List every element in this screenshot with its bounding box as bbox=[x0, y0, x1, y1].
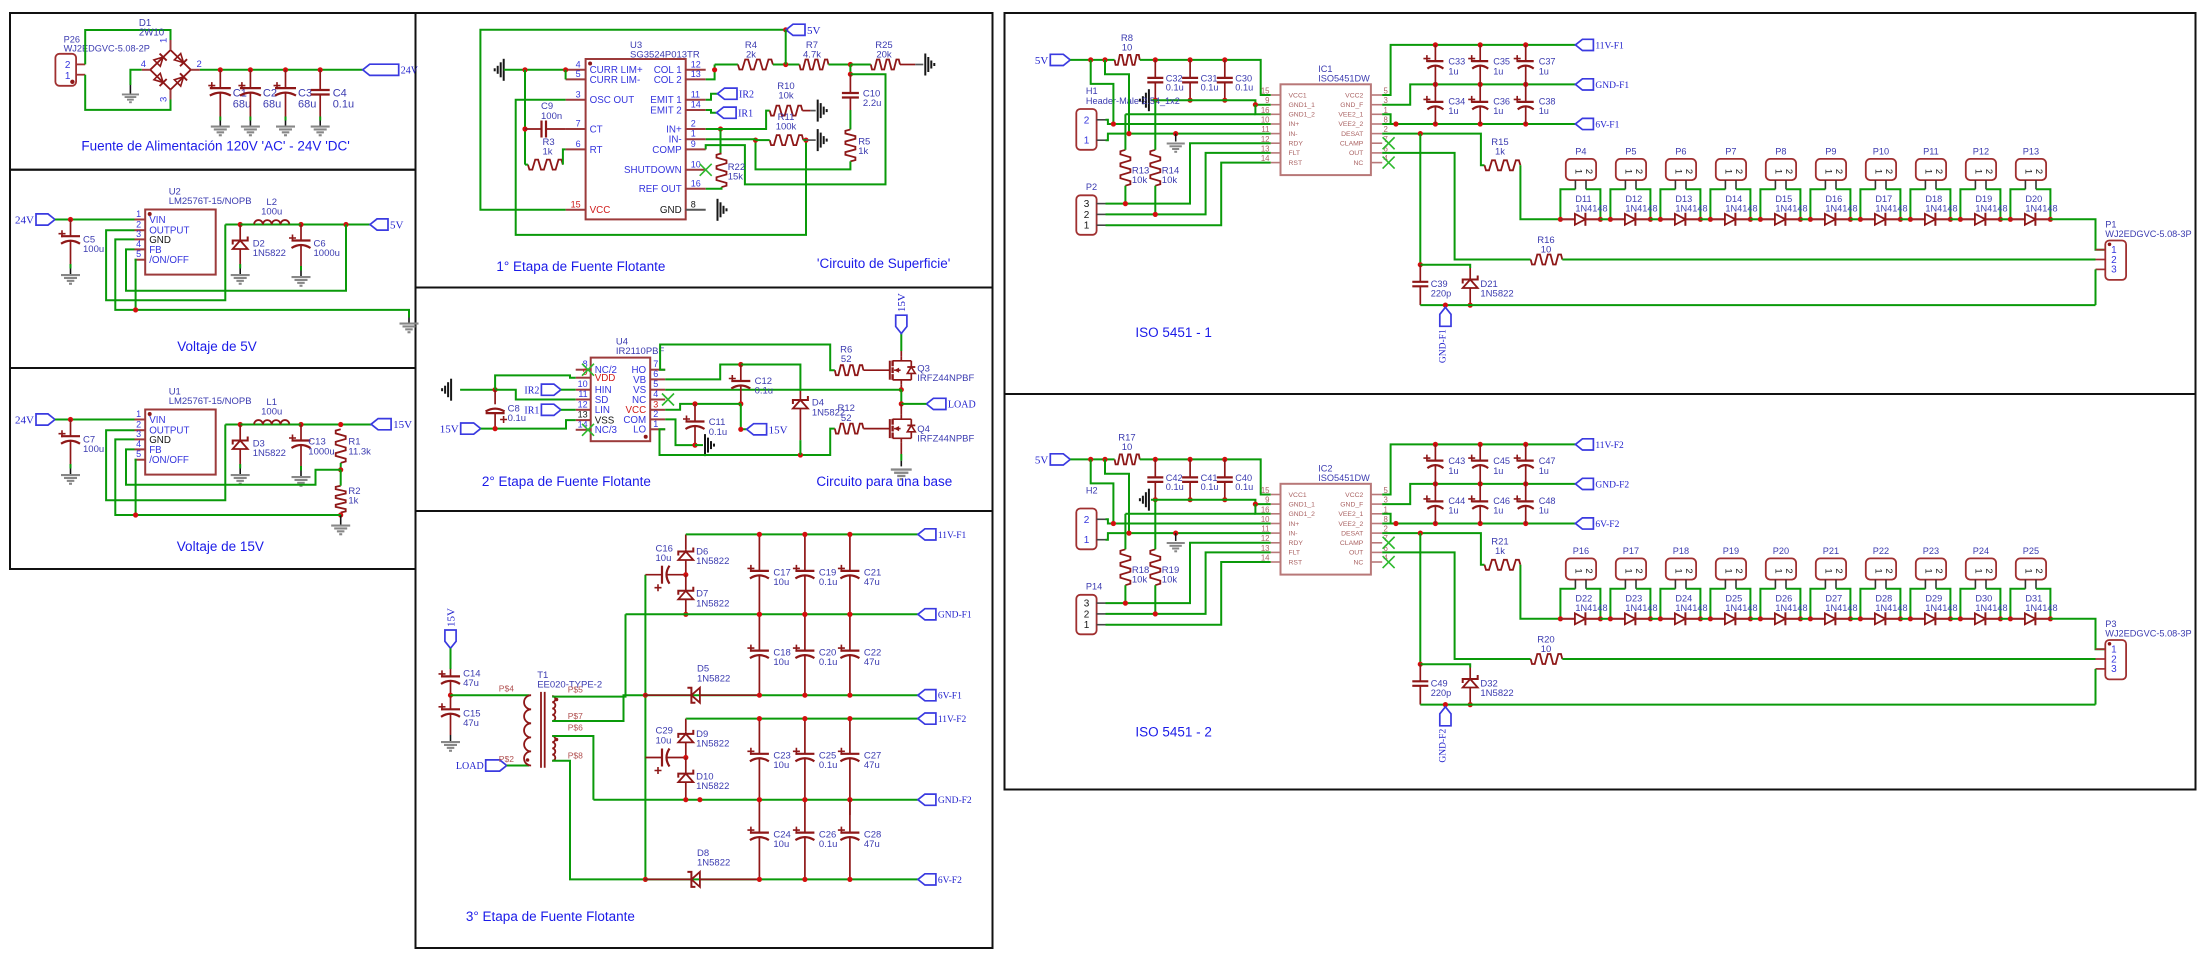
C37 ref bbox=[1539, 57, 1556, 67]
wire gnd1 rail ISO2 bbox=[1151, 500, 1271, 504]
svg-text:1N4148: 1N4148 bbox=[1975, 203, 2007, 213]
resistor R2 1k bbox=[336, 486, 346, 513]
svg-text:VEE2_2: VEE2_2 bbox=[1338, 521, 1363, 528]
wire gnd12 long ISO1 bbox=[1125, 113, 1255, 115]
wire VCC2 rail ISO1 bbox=[1382, 45, 1575, 95]
svg-text:1u: 1u bbox=[1539, 466, 1549, 476]
wire chain D12 to next bbox=[1650, 218, 1660, 220]
D32 label ref bbox=[1480, 678, 1497, 689]
wire P7.1 to chain bbox=[1710, 189, 1725, 219]
junction rail b ISO2 bbox=[1102, 457, 1107, 462]
wire P11.2 to chain bbox=[1936, 189, 1950, 219]
wire VEE2_2 stub ISO1 bbox=[1382, 123, 1396, 125]
IC1 pin name CLAMP bbox=[1340, 141, 1364, 148]
junction C42 bottom bbox=[1153, 497, 1158, 502]
svg-text:RT: RT bbox=[590, 145, 603, 156]
IC1 pin name GND_F bbox=[1340, 102, 1363, 109]
junction C5 top bbox=[68, 217, 73, 222]
resistor R13 10k bbox=[1120, 150, 1130, 186]
power flag 5V output text bbox=[390, 220, 404, 232]
IC1 pin 6 number bbox=[1384, 144, 1388, 153]
wire C2 gnd black bbox=[249, 121, 251, 126]
wire C4 gnd black bbox=[319, 121, 321, 126]
svg-text:2: 2 bbox=[653, 409, 658, 419]
svg-text:11: 11 bbox=[578, 389, 587, 399]
junction C24 bottom bbox=[757, 877, 762, 882]
capacitor C4 0.1u bbox=[311, 70, 330, 117]
R19 label ref bbox=[1162, 565, 1179, 576]
resistor R5 1k label value bbox=[858, 146, 868, 157]
svg-text:CLAMP: CLAMP bbox=[1340, 540, 1364, 547]
U3 pin 9 stub bbox=[686, 148, 706, 150]
C3 ref bbox=[298, 88, 312, 100]
wire chain D27 to next bbox=[1850, 618, 1860, 620]
junction C13 top bbox=[298, 422, 303, 427]
svg-text:P14: P14 bbox=[1086, 582, 1102, 592]
svg-text:LM2576T-15/NOPB: LM2576T-15/NOPB bbox=[169, 396, 252, 407]
IC1 pin 5 number bbox=[1384, 87, 1389, 96]
svg-text:2: 2 bbox=[691, 119, 696, 129]
U3 pin 6 stub bbox=[566, 148, 586, 150]
resistor R10 10k label ref bbox=[777, 81, 794, 92]
svg-text:REF OUT: REF OUT bbox=[639, 184, 682, 195]
svg-text:1N5822: 1N5822 bbox=[697, 858, 730, 869]
P6 pin2 digit bbox=[1683, 169, 1694, 174]
D21 label value bbox=[1480, 289, 1513, 300]
net flag GND-F2 vertical bbox=[1440, 707, 1451, 726]
svg-text:100n: 100n bbox=[541, 111, 562, 122]
U4 pin name NC/3 bbox=[595, 425, 618, 436]
wire chain to P3 bbox=[2050, 619, 2105, 649]
wire pin4 to pin5 bbox=[565, 70, 567, 80]
inductor L1 100u label ref bbox=[266, 397, 277, 408]
P5 pin2 stub bbox=[1635, 180, 1637, 189]
P20 pin2 digit bbox=[1783, 568, 1794, 573]
capacitor C25 0.1u bbox=[793, 719, 815, 800]
wire gnd stem D1.4 bbox=[129, 85, 131, 94]
svg-text:DESAT: DESAT bbox=[1341, 530, 1363, 537]
P1 pin 2 stub bbox=[2096, 259, 2106, 261]
diode D20 1N4148 bbox=[2010, 213, 2050, 226]
svg-text:GND_F: GND_F bbox=[1340, 501, 1363, 508]
svg-text:GND_F: GND_F bbox=[1340, 102, 1363, 109]
svg-text:GND-F1: GND-F1 bbox=[1595, 81, 1629, 91]
P10 pin1 stub bbox=[1874, 180, 1876, 189]
svg-text:P21: P21 bbox=[1823, 546, 1839, 556]
svg-text:CURR LIM-: CURR LIM- bbox=[590, 75, 641, 86]
junction D18 anode bbox=[1908, 217, 1913, 222]
wire VDD net bbox=[495, 375, 576, 389]
D1 pin4 stub bbox=[142, 69, 151, 71]
wire chain D29 to next bbox=[1950, 618, 1960, 620]
C33 ref bbox=[1448, 57, 1465, 67]
IC1 pin name IN+ bbox=[1289, 121, 1300, 128]
junction C1 top bbox=[218, 67, 223, 72]
U4 pin name VCC bbox=[626, 405, 647, 416]
P20 pin1 digit bbox=[1772, 568, 1783, 573]
D1 value bbox=[139, 27, 165, 38]
P10 pin1 digit bbox=[1872, 169, 1883, 174]
junction rail a ISO1 bbox=[1088, 57, 1093, 62]
svg-text:7: 7 bbox=[653, 359, 658, 369]
svg-text:FLT: FLT bbox=[1289, 150, 1301, 157]
P4 pin1 stub bbox=[1574, 180, 1576, 189]
C27 label value bbox=[864, 760, 880, 771]
net flag IR1 text bbox=[738, 108, 753, 119]
IC2 pin 3 number bbox=[1384, 496, 1388, 505]
transformer T1 core bbox=[541, 692, 545, 768]
wire R19 top bbox=[1154, 500, 1156, 550]
svg-text:P19: P19 bbox=[1723, 546, 1739, 556]
svg-text:2: 2 bbox=[1583, 169, 1594, 174]
svg-text:0.1u: 0.1u bbox=[508, 413, 526, 424]
resistor R25 20k bbox=[871, 60, 900, 70]
connector H1 Header bbox=[1076, 109, 1096, 150]
C48 value bbox=[1539, 506, 1549, 516]
P16 pin2 digit bbox=[1583, 568, 1594, 573]
net flag LOAD text bbox=[948, 400, 976, 411]
junction C23 top bbox=[757, 716, 762, 721]
svg-text:P13: P13 bbox=[2023, 146, 2039, 156]
svg-text:P17: P17 bbox=[1623, 546, 1639, 556]
U3 pin 7 stub bbox=[566, 128, 586, 130]
T1 pin P$7 label bbox=[568, 711, 583, 721]
svg-text:2k: 2k bbox=[746, 50, 756, 61]
C39 value bbox=[1431, 289, 1451, 299]
svg-text:4: 4 bbox=[653, 389, 658, 399]
svg-text:5: 5 bbox=[136, 449, 141, 459]
net flag 11V-F1 bbox=[1575, 39, 1593, 50]
wire R4 to R7 node bbox=[773, 64, 800, 66]
diode D3 1N5822 label ref bbox=[253, 439, 265, 450]
wire R11 right bbox=[803, 139, 806, 141]
svg-text:NC/3: NC/3 bbox=[595, 425, 618, 436]
junction R11 right bbox=[803, 138, 808, 143]
C44 value bbox=[1448, 506, 1458, 516]
IC2 pin 12 number bbox=[1261, 534, 1270, 543]
C20 label ref bbox=[819, 647, 836, 658]
svg-text:100k: 100k bbox=[776, 122, 797, 133]
wire R11 gnd lead bbox=[806, 139, 816, 141]
diode D23 1N4148 bbox=[1610, 612, 1650, 625]
IC1 pin 7 number bbox=[1384, 135, 1388, 144]
svg-text:GND1_2: GND1_2 bbox=[1289, 511, 1316, 518]
wire chain D24 to next bbox=[1700, 618, 1710, 620]
U4 pin 7 number bbox=[653, 359, 658, 369]
resistor R8 10 label value bbox=[1122, 42, 1133, 53]
junction D26 cathode bbox=[1798, 616, 1803, 621]
ground at C15 bbox=[441, 735, 460, 752]
diode D16 1N4148 bbox=[1810, 213, 1850, 226]
power flag 15V block6 text bbox=[445, 608, 457, 627]
svg-text:2.2u: 2.2u bbox=[863, 98, 882, 109]
IC2 pin 12 stub bbox=[1271, 542, 1281, 544]
wire IR1 to LIN bbox=[561, 409, 576, 411]
svg-text:5V: 5V bbox=[390, 220, 404, 232]
svg-text:4: 4 bbox=[576, 59, 581, 69]
C31 value bbox=[1201, 83, 1219, 93]
svg-text:0.1u: 0.1u bbox=[1166, 83, 1184, 93]
junction C30t ISO1 bbox=[1222, 57, 1227, 62]
U2 pin VIN name bbox=[149, 215, 165, 226]
IC1 pin 11 stub bbox=[1271, 133, 1281, 135]
P16 pin1 stub bbox=[1574, 580, 1576, 589]
U3 pin 12 number bbox=[691, 59, 701, 69]
net flag 11V-F2 text bbox=[938, 715, 967, 725]
P11 pin2 digit bbox=[1933, 169, 1944, 174]
svg-text:0.1u: 0.1u bbox=[819, 577, 838, 588]
svg-text:VEE2_1: VEE2_1 bbox=[1338, 112, 1363, 119]
svg-text:D24: D24 bbox=[1675, 593, 1692, 603]
wire chain to P1 bbox=[2050, 219, 2105, 249]
T1 label value bbox=[537, 679, 602, 690]
H2 pin 1 number bbox=[1084, 535, 1090, 546]
P24 pin2 digit bbox=[1983, 568, 1994, 573]
junction VEE ISO1 bbox=[1393, 121, 1398, 126]
U1 pin 1 number bbox=[136, 409, 141, 419]
svg-text:EMIT 2: EMIT 2 bbox=[650, 105, 681, 116]
resistor R11 100k label ref bbox=[778, 112, 795, 123]
svg-text:IN+: IN+ bbox=[1289, 521, 1300, 528]
P14 ref bbox=[1086, 582, 1102, 592]
R13 label ref bbox=[1132, 165, 1149, 176]
svg-text:12: 12 bbox=[578, 399, 588, 409]
diode D18 1N4148 bbox=[1910, 213, 1950, 226]
power flag 15V output bbox=[371, 419, 391, 430]
P21 pin1 stub bbox=[1824, 580, 1826, 589]
resistor R17 10 bbox=[1115, 454, 1140, 464]
junction D20 anode bbox=[2008, 217, 2013, 222]
svg-text:P3: P3 bbox=[2105, 619, 2116, 629]
junction D2 top bbox=[238, 222, 243, 227]
wire L1 right bbox=[289, 424, 301, 426]
junction D19 anode bbox=[1958, 217, 1963, 222]
P9 pin1 digit bbox=[1822, 169, 1833, 174]
svg-text:1k: 1k bbox=[1495, 546, 1505, 557]
svg-text:1N5822: 1N5822 bbox=[1480, 688, 1513, 699]
svg-text:1: 1 bbox=[65, 71, 71, 82]
U4 pin 8 stub bbox=[576, 369, 591, 371]
junction GND flag ISO2 bbox=[1443, 702, 1448, 707]
svg-text:1: 1 bbox=[1672, 568, 1683, 573]
C36 value bbox=[1493, 106, 1503, 116]
U4 pin 9 number bbox=[583, 367, 588, 377]
D15 value bbox=[1775, 203, 1807, 213]
signal ground at C11 bbox=[705, 434, 714, 456]
U3 pin 11 stub bbox=[686, 99, 706, 101]
ground at C6 bbox=[292, 271, 311, 287]
D20 value bbox=[2025, 203, 2057, 213]
capacitor C35 1u bbox=[1468, 45, 1488, 85]
wire FB loop bbox=[126, 225, 346, 291]
P3 value bbox=[2105, 629, 2191, 639]
IC1 pin name VCC2 bbox=[1345, 92, 1363, 99]
svg-text:9: 9 bbox=[691, 139, 696, 149]
U3 pin 8 stub bbox=[686, 209, 706, 211]
wire gnd to SD bbox=[495, 390, 576, 400]
svg-text:C49: C49 bbox=[1431, 678, 1448, 688]
wire GND_F rail ISO2 bbox=[1382, 484, 1575, 504]
diode D6 1N5822 bbox=[678, 548, 693, 575]
P26 ref bbox=[64, 34, 80, 44]
wire H pin2 to IN+ ISO2 bbox=[1106, 519, 1271, 523]
P3 pin 1 number bbox=[2111, 645, 2117, 656]
svg-text:P$2: P$2 bbox=[499, 754, 514, 764]
resistor R15 1k bbox=[1485, 160, 1521, 170]
junction C27 top bbox=[847, 716, 852, 721]
junction C2 top bbox=[248, 67, 253, 72]
svg-text:47u: 47u bbox=[864, 760, 880, 771]
IC2 pin name VCC2 bbox=[1345, 492, 1363, 499]
inductor L2 100u label ref bbox=[266, 197, 277, 208]
P18 pin2 stub bbox=[1685, 580, 1687, 589]
wire OUT ISO2 bbox=[1382, 552, 1531, 659]
svg-text:1N4148: 1N4148 bbox=[1775, 203, 1807, 213]
svg-text:P$7: P$7 bbox=[568, 711, 583, 721]
P25 pin2 stub bbox=[2035, 580, 2037, 589]
resistor R5 1k label ref bbox=[858, 137, 870, 148]
U3 pin 2 number bbox=[691, 119, 696, 129]
connector P8 bbox=[1766, 159, 1796, 180]
transistor Q4 IRFZ44NPBF label ref bbox=[917, 424, 930, 435]
resistor R10 10k bbox=[770, 106, 803, 116]
svg-text:1000u: 1000u bbox=[314, 248, 340, 259]
wire P6.1 to chain bbox=[1660, 189, 1675, 219]
svg-text:10k: 10k bbox=[1132, 175, 1148, 186]
capacitor C44 1u bbox=[1423, 484, 1443, 524]
wire P3.3 riser bbox=[2095, 669, 2097, 705]
svg-text:C44: C44 bbox=[1448, 496, 1465, 506]
U3 pin 1 number bbox=[691, 129, 696, 139]
svg-text:ISO5451DW: ISO5451DW bbox=[1318, 74, 1370, 84]
net flag GND-F1 text bbox=[1595, 81, 1629, 91]
svg-text:LOAD: LOAD bbox=[456, 761, 484, 772]
title Fuente de Alimentacion bbox=[81, 139, 349, 154]
U3 pin 16 stub bbox=[686, 188, 706, 190]
IC2 pin 15 stub bbox=[1271, 494, 1281, 496]
P3 ref bbox=[2105, 619, 2116, 629]
signal ground ISO1 gnd1 bbox=[1140, 89, 1149, 111]
svg-text:C39: C39 bbox=[1431, 279, 1448, 289]
capacitor C37 1u bbox=[1514, 45, 1534, 85]
IC1 pin 8 number bbox=[1384, 116, 1388, 125]
connector P10 bbox=[1866, 159, 1896, 180]
junction C24 top bbox=[757, 797, 762, 802]
U2 pin 5 number bbox=[136, 249, 141, 259]
svg-text:1N5822: 1N5822 bbox=[696, 556, 729, 567]
inductor L2 100u label value bbox=[261, 207, 282, 218]
junction COL1 bbox=[712, 67, 717, 72]
IC1 pin 12 number bbox=[1261, 135, 1270, 144]
wire IN- j bbox=[755, 138, 757, 141]
wire H pin1 to IN- ISO1 bbox=[1106, 134, 1271, 141]
svg-text:P22: P22 bbox=[1873, 546, 1889, 556]
svg-text:13: 13 bbox=[1261, 144, 1270, 153]
U3 pin 3 number bbox=[576, 89, 581, 99]
H1 pin2 stub bbox=[1097, 119, 1106, 121]
wire 6V-F1 row bbox=[645, 694, 918, 696]
IC2 pin 16 stub bbox=[1271, 513, 1281, 515]
U3 pin 5 stub bbox=[566, 78, 586, 80]
C20 label value bbox=[819, 657, 838, 668]
U3 pin name CURR LIM+ bbox=[590, 65, 643, 76]
wire P12.1 to chain bbox=[1960, 189, 1975, 219]
C2 value bbox=[263, 99, 281, 111]
svg-text:52: 52 bbox=[841, 354, 852, 365]
junction rail a ISO2 bbox=[1088, 457, 1093, 462]
wire rail after R8 bbox=[1140, 60, 1271, 95]
no-connect CLAMP ISO1 bbox=[1383, 137, 1395, 149]
junction Q3 VS bbox=[899, 387, 904, 392]
junction C18 bottom bbox=[757, 693, 762, 698]
resistor R14 10k bbox=[1150, 150, 1160, 186]
IC2 pin name RST bbox=[1289, 559, 1303, 566]
svg-text:0.1u: 0.1u bbox=[1201, 83, 1219, 93]
wire P$8 to 6V-F2 bbox=[552, 761, 644, 880]
wire H pin2 to IN+ ISO1 bbox=[1106, 120, 1271, 124]
P1 pin 1 number bbox=[2111, 245, 2117, 256]
P14 pin 3 number bbox=[1084, 599, 1090, 610]
P9 pin1 stub bbox=[1824, 180, 1826, 189]
svg-text:D31: D31 bbox=[2025, 593, 2042, 603]
D4 label value bbox=[812, 407, 845, 418]
svg-text:15V: 15V bbox=[896, 293, 908, 312]
D26 value bbox=[1775, 603, 1807, 613]
ground at IN- ISO2 bbox=[1167, 542, 1185, 552]
svg-text:1: 1 bbox=[653, 419, 658, 429]
ground at C2 bbox=[241, 126, 260, 137]
svg-text:SG3524P013TR: SG3524P013TR bbox=[630, 50, 700, 61]
C2 ref bbox=[263, 88, 277, 100]
IC1 pin 2 stub bbox=[1371, 133, 1383, 135]
capacitor C16 10u bbox=[645, 566, 685, 592]
svg-text:GND-F2: GND-F2 bbox=[1438, 729, 1448, 763]
wire P14.2 to FLT bbox=[1106, 552, 1271, 614]
svg-text:1u: 1u bbox=[1493, 466, 1503, 476]
D17 value bbox=[1875, 203, 1907, 213]
svg-text:RDY: RDY bbox=[1289, 141, 1304, 148]
svg-text:1: 1 bbox=[2022, 169, 2033, 174]
P10 ref bbox=[1873, 146, 1889, 156]
svg-text:100u: 100u bbox=[83, 244, 104, 255]
svg-text:47u: 47u bbox=[463, 718, 479, 729]
wire chain D18 to next bbox=[1950, 218, 1960, 220]
capacitor C39 220p bbox=[1412, 265, 1428, 305]
P2 pin 1 stub bbox=[1097, 224, 1106, 226]
wire R11 left bbox=[756, 139, 770, 141]
P1 value bbox=[2105, 229, 2191, 239]
signal ground at U3 GND bbox=[718, 199, 727, 221]
P16 pin1 digit bbox=[1572, 568, 1583, 573]
capacitor C10 2.2u bbox=[842, 74, 859, 110]
P8 pin1 digit bbox=[1772, 169, 1783, 174]
connector P12 bbox=[1966, 159, 1996, 180]
IC2 pin 11 stub bbox=[1271, 532, 1281, 534]
connector H2 Header bbox=[1076, 509, 1096, 550]
no-connect NC/2 bbox=[582, 364, 594, 376]
U4 pin 7 stub bbox=[650, 369, 665, 371]
svg-text:2: 2 bbox=[1833, 169, 1844, 174]
P25 pin1 digit bbox=[2022, 568, 2033, 573]
U3 pin 10 number bbox=[691, 159, 701, 169]
svg-text:IN-: IN- bbox=[1289, 530, 1298, 537]
T1 pin P$5 label bbox=[568, 685, 583, 695]
IC2 pin 10 number bbox=[1261, 515, 1270, 524]
connector P13 bbox=[2016, 159, 2046, 180]
resistor R8 10 bbox=[1115, 55, 1140, 65]
svg-text:D20: D20 bbox=[2025, 194, 2042, 204]
svg-text:1u: 1u bbox=[1539, 506, 1549, 516]
